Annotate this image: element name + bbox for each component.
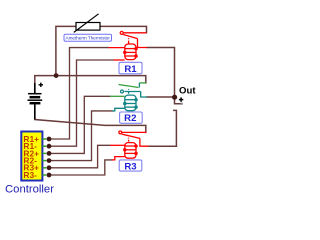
svg-text:Out: Out (179, 86, 196, 97)
svg-text:Controller: Controller (5, 184, 54, 196)
svg-text:Ametherm Thermistor: Ametherm Thermistor (66, 36, 111, 41)
svg-text:R2: R2 (124, 113, 136, 124)
svg-text:R3-: R3- (23, 170, 37, 180)
svg-text:R1: R1 (124, 64, 137, 75)
svg-text:R3: R3 (124, 161, 136, 172)
